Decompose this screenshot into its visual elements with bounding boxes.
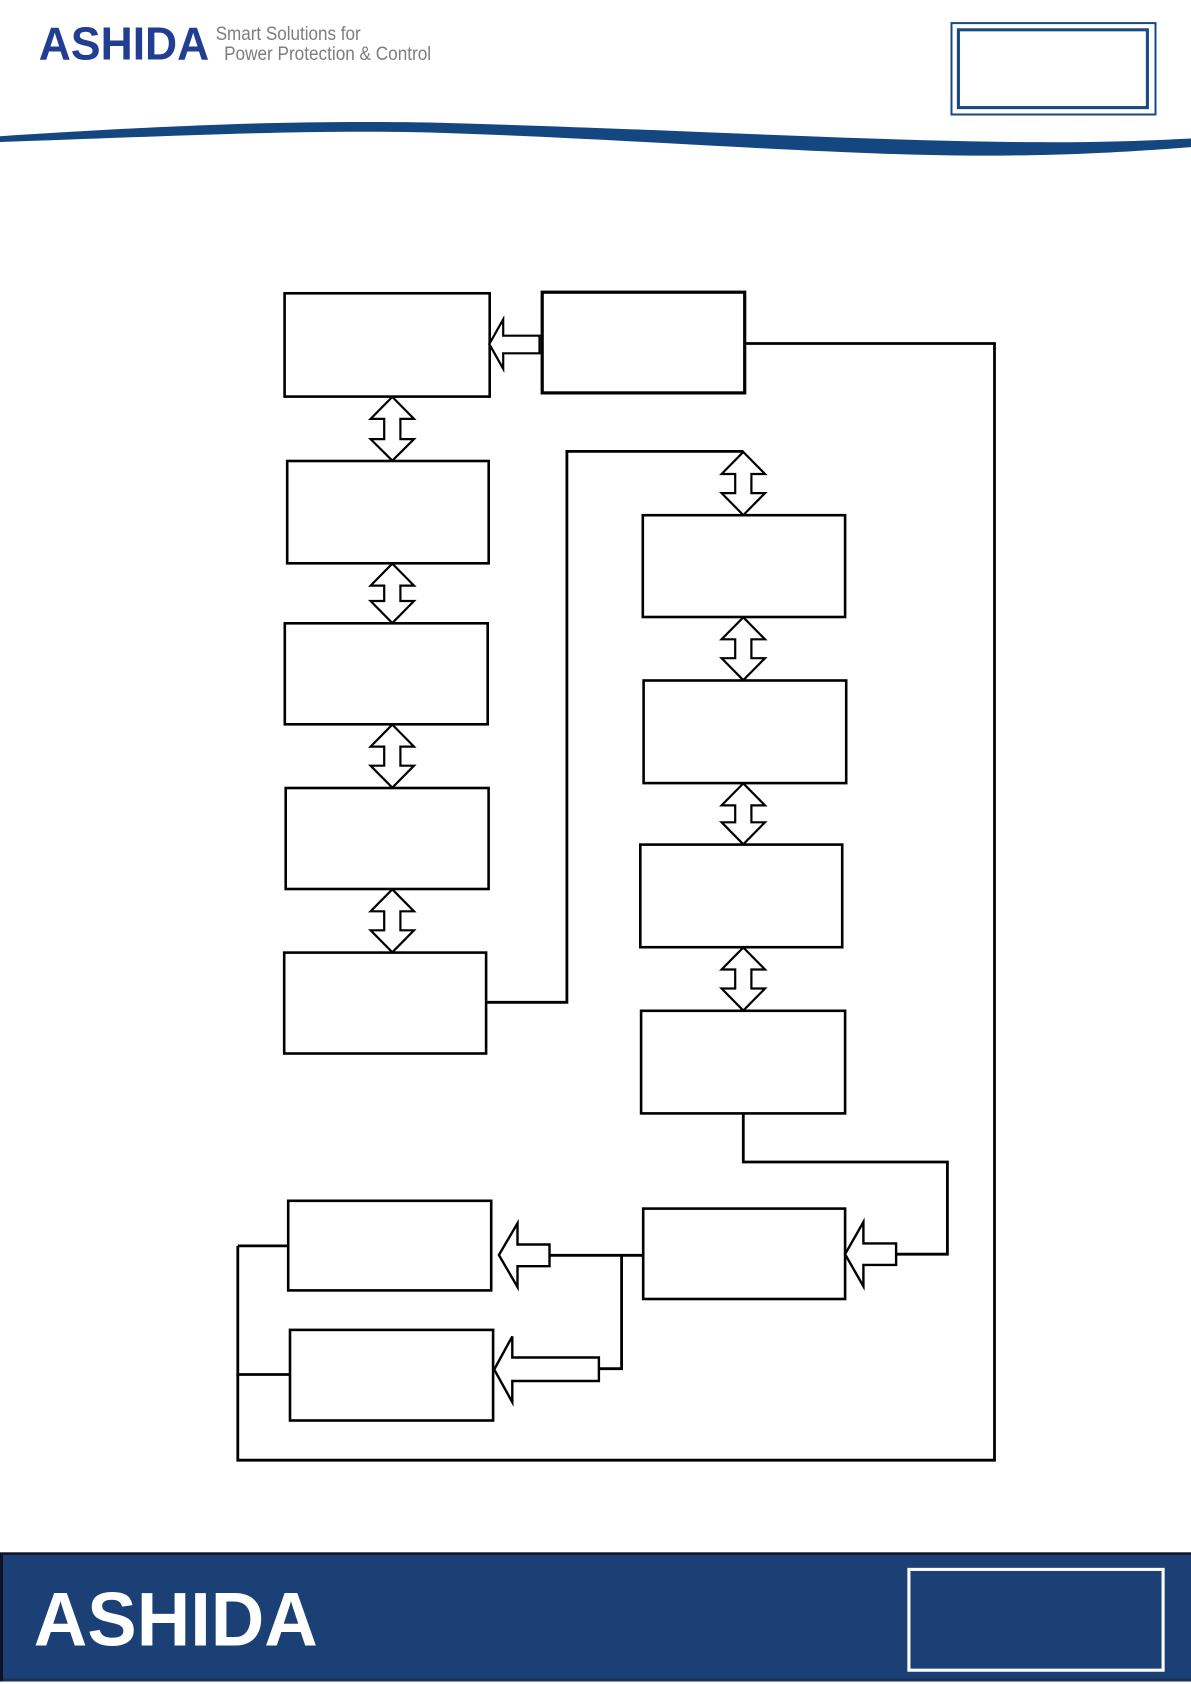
wire loop from T2 right edge around page to left riser	[238, 344, 995, 1461]
double arrow D3 between L3 and L4	[371, 725, 414, 788]
box L3	[285, 623, 488, 724]
svg-text:ASHIDA: ASHIDA	[39, 18, 210, 70]
block arrow A4 into B3 right edge	[494, 1336, 599, 1402]
box R3	[640, 845, 842, 948]
header swoosh wave	[0, 122, 1191, 156]
svg-text:Smart Solutions for: Smart Solutions for	[216, 23, 361, 45]
wire stub into B1 left edge	[238, 1245, 288, 1248]
footer white outline box	[909, 1569, 1163, 1670]
block arrow A3 into B2 right edge	[845, 1222, 896, 1286]
footer band navy fill	[3, 1555, 1191, 1679]
box B1 (bottom-left upper)	[288, 1201, 491, 1291]
box R1	[643, 515, 845, 617]
wire from B2 left edge to arrow into B1	[550, 1254, 644, 1257]
svg-text:ASHIDA: ASHIDA	[34, 1577, 318, 1662]
double arrow D6 between R1 and R2	[722, 617, 765, 680]
box B2 (bottom-middle)	[643, 1209, 845, 1299]
double arrow D2 between L2 and L3	[371, 564, 414, 623]
footer band bottom dark strip	[3, 1676, 1191, 1681]
double arrow D1 between T1 and L2	[371, 397, 414, 461]
wire branch down to arrow into B3	[599, 1255, 622, 1368]
box L4	[286, 788, 489, 889]
block arrow A2 from B2 into B1	[499, 1223, 550, 1287]
header reference box outer border	[952, 23, 1156, 114]
box L2	[287, 461, 489, 563]
wire from L5 right edge up to right column top	[486, 451, 743, 1002]
box L5	[284, 953, 486, 1054]
double arrow D4 between L4 and L5	[371, 889, 414, 952]
double arrow D8 between R3 and R4	[722, 948, 765, 1011]
box R2	[644, 681, 847, 784]
box B3 (bottom-left lower)	[290, 1330, 493, 1421]
wire from R4 bottom down and right to arrow into B2	[743, 1113, 947, 1254]
footer band black edge	[0, 1552, 1191, 1681]
double arrow D5 above R1	[722, 452, 765, 515]
block arrow A1 from T2 into T1	[489, 319, 539, 369]
box T2 (top-middle)	[542, 292, 745, 393]
double arrow D7 between R2 and R3	[722, 783, 765, 844]
box T1 (top-left)	[285, 293, 490, 396]
svg-text:Power Protection & Control: Power Protection & Control	[224, 43, 431, 65]
wire stub into B3 left edge	[236, 1373, 290, 1376]
header reference box inner border	[958, 30, 1147, 108]
box R4	[641, 1011, 845, 1114]
